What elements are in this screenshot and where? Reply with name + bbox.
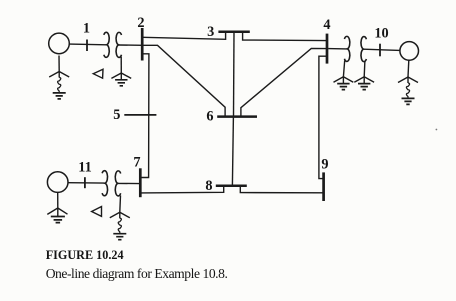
bus 7 bar <box>139 168 142 197</box>
grounded wye of T2 right <box>363 61 366 77</box>
transformer T1 right winding <box>116 32 121 57</box>
transformer T2 right winding <box>361 37 366 62</box>
line bus4 to bus6 (diagonal) <box>241 49 326 117</box>
generator G11 <box>47 172 68 193</box>
svg-text:7: 7 <box>133 154 140 170</box>
wire T1 to bus 2 <box>119 44 143 46</box>
transformer T1 left winding <box>104 32 109 57</box>
bus 5 tick <box>124 114 156 116</box>
line bus2 to bus3 <box>143 32 226 39</box>
line bus6 to bus8 (vertical) <box>232 117 233 186</box>
svg-text:4: 4 <box>323 17 330 33</box>
generator G10 <box>400 42 419 61</box>
svg-text:1: 1 <box>83 21 90 37</box>
grounded wye of T1 <box>120 57 122 73</box>
wire T3 to bus 7 <box>118 182 140 184</box>
bus 3 bar <box>218 30 249 33</box>
transformer T3 right winding <box>115 171 120 196</box>
delta symbol of T1 <box>93 69 103 78</box>
wire G1 to transformer T1 <box>70 43 107 46</box>
svg-text:6: 6 <box>206 108 213 124</box>
ground chain of G11 (wye, earth) <box>57 193 59 208</box>
line bus4 to transformer T2 <box>328 48 347 50</box>
wire G11 to transformer T3 <box>68 182 105 184</box>
svg-text:2: 2 <box>137 15 144 31</box>
line bus4 to bus9 (vertical) <box>319 56 326 178</box>
svg-text:5: 5 <box>113 107 120 123</box>
svg-text:3: 3 <box>207 24 214 40</box>
ground chain of G1 (wye, coil, earth) <box>58 56 60 72</box>
bus 1 tick <box>86 40 88 52</box>
ground chain of T3 (wye, coil, earth) <box>119 196 122 213</box>
line bus3 to bus6 (vertical) <box>233 33 236 117</box>
bus 10 tick <box>379 44 381 57</box>
scan speck <box>436 129 438 131</box>
generator G1 <box>49 33 70 54</box>
svg-text:9: 9 <box>321 157 328 173</box>
bus 11 tick <box>84 177 86 188</box>
transformer T2 left winding <box>344 36 349 61</box>
transformer T3 left winding <box>102 171 107 196</box>
svg-text:8: 8 <box>205 178 212 194</box>
svg-text:11: 11 <box>78 160 92 176</box>
line bus7 to bus8 <box>141 186 224 193</box>
grounded wye of T2 left <box>343 61 344 77</box>
bus 8 bar <box>216 184 247 187</box>
bus 6 bar <box>217 115 257 118</box>
bus 4 bar <box>326 34 329 64</box>
bus 9 bar <box>322 172 325 201</box>
svg-text:One-line diagram for Example 1: One-line diagram for Example 10.8. <box>46 266 228 281</box>
svg-text:10: 10 <box>374 25 388 41</box>
line bus3 to bus4 <box>243 32 326 41</box>
line bus2 to bus6 (diagonal) <box>143 45 225 116</box>
line bus8 to bus9 <box>240 186 323 193</box>
svg-text:FIGURE 10.24: FIGURE 10.24 <box>46 248 124 262</box>
line bus2 to bus5 to bus7 (vertical) <box>141 54 149 178</box>
bus 2 bar <box>141 28 144 61</box>
delta symbol of T3 <box>92 207 102 217</box>
wire T2 to G10 <box>364 49 400 50</box>
ground chain of G10 (wye, coil, earth) <box>407 60 410 77</box>
